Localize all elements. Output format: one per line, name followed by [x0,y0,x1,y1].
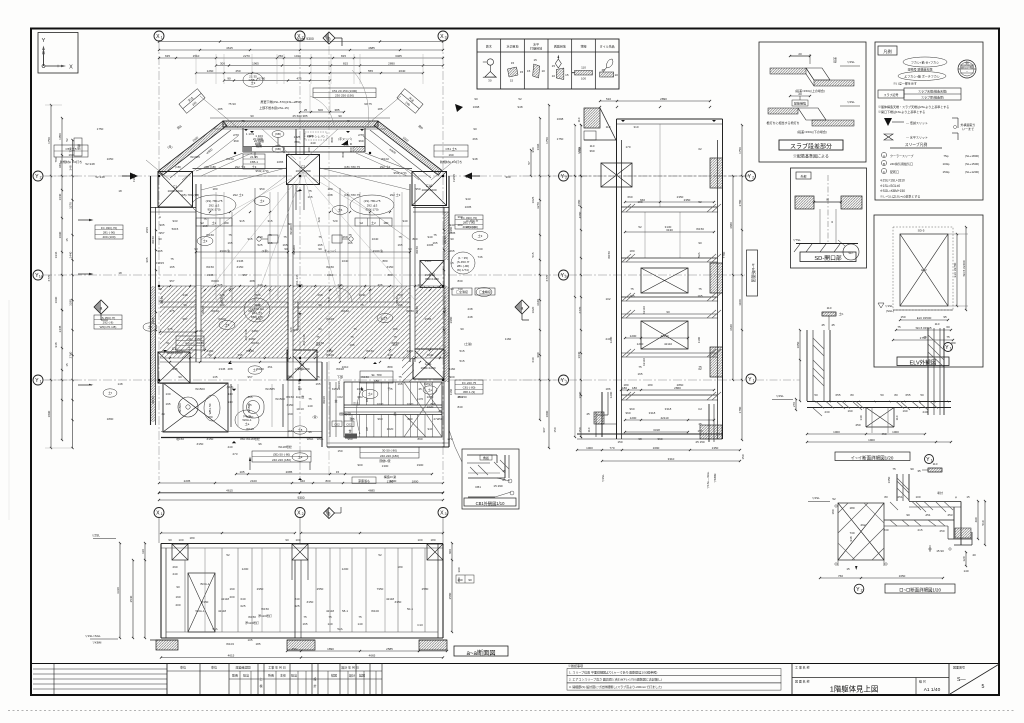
left arrow 1 [78,219,94,221]
plan tick cluster 1 [209,211,391,213]
C2 fan leaders [201,172,415,302]
i-i leader from Y1 [756,379,800,381]
svg-text:889: 889 [387,365,392,369]
i-i Y1 bubble right [925,455,934,464]
svg-text:4615: 4615 [226,489,233,493]
svg-text:C51 土5: C51 土5 [445,146,456,151]
svg-text:W0(170·1/8): W0(170·1/8) [100,325,117,329]
plan tick cluster 2 [169,361,421,363]
svg-text:9300: 9300 [297,38,305,42]
svg-text:948: 948 [472,157,477,161]
svg-text:1698: 1698 [557,117,564,121]
svg-text:W(·1/74): W(·1/74) [457,268,469,272]
svg-text:1160: 1160 [505,337,512,341]
svg-text:2550: 2550 [317,587,324,591]
svg-text:475: 475 [296,77,301,81]
svg-text:W918: W918 [322,396,326,404]
small squares hvac [257,235,353,243]
svg-text:310: 310 [633,125,638,129]
grid line Y1 [43,379,745,381]
aa bottom dims2 [160,654,444,659]
wall gap strips in band [197,286,415,358]
label box bottom-right [360,447,419,458]
svg-text:180: 180 [831,509,835,514]
grid bubble Y1 plan-right [559,375,569,385]
svg-text:269: 269 [342,235,347,239]
svg-text:1020: 1020 [531,306,535,313]
leader arrow bottom [249,457,310,471]
bb floor line 2 [621,258,718,262]
svg-text:W1900: W1900 [292,245,296,255]
svg-text:1000: 1000 [892,430,899,434]
aa extra texts [200,582,413,646]
svg-text:240·220·(180): 240·220·(180) [380,454,399,458]
svg-text:CB1外観図1/10: CB1外観図1/10 [476,500,506,507]
svg-text:140: 140 [357,622,362,626]
svg-text:1000×1000: 1000×1000 [421,188,436,192]
bb strip left wall [617,119,622,439]
svg-text:940: 940 [427,235,432,239]
svg-text:890: 890 [407,417,412,421]
leader diag left room [201,168,286,240]
svg-text:下部: 下部 [337,374,343,379]
svg-text:d5: d5 [502,478,506,482]
svg-text:W100: W100 [246,427,254,431]
svg-text:ELV #2780: ELV #2780 [953,262,957,277]
svg-text:75: 75 [398,235,402,239]
svg-text:42110: 42110 [642,306,646,314]
svg-text:金: 金 [334,398,337,403]
svg-text:615: 615 [443,307,447,312]
svg-text:1965: 1965 [252,62,259,66]
svg-text:96: 96 [308,430,312,434]
svg-text:1160: 1160 [449,367,456,371]
svg-text:鉄木: 鉄木 [486,44,492,49]
svg-text:02: 02 [698,147,702,151]
svg-text:90: 90 [474,97,478,101]
svg-text:180: 180 [623,383,628,387]
left outer wall [151,176,156,425]
svg-text:2890: 2890 [660,97,667,101]
svg-text:誘発目地: 誘発目地 [554,44,566,49]
svg-text:W150: W150 [251,341,259,345]
svg-text:230·250·(190): 230·250·(190) [335,94,354,98]
svg-text:チャンバ: チャンバ [324,248,336,253]
svg-text:90: 90 [158,287,162,291]
svg-text:52: 52 [518,97,522,101]
corridor D arrow [341,140,353,146]
svg-text:1: 1 [950,347,952,351]
svg-text:10: 10 [614,73,618,77]
left dims extra ticks [45,105,78,448]
svg-text:80: 80 [884,495,888,499]
svg-text:X: X [440,510,444,516]
svg-text:90: 90 [176,585,180,589]
svg-text:W100: W100 [326,353,334,357]
svg-text:1: 1 [565,380,567,384]
plan marker triangles [163,131,377,364]
svg-text:15: 15 [511,61,515,65]
svg-text:75: 75 [360,303,364,307]
svg-text:2: 2 [752,176,754,180]
svg-text:75: 75 [698,365,702,369]
svg-text:3440: 3440 [69,251,73,258]
svg-text:土a: 土a [188,345,193,350]
svg-text:匚全溶接: 匚全溶接 [479,289,491,294]
svg-text:(3E)·50·(·80): (3E)·50·(·80) [273,453,290,457]
label boxes S2 [196,218,392,226]
svg-text:土e: 土e [428,387,433,392]
label box WDA-1 [176,336,204,350]
bb hatched col 3 [710,347,723,377]
svg-text:390: 390 [457,215,462,219]
svg-text:土2: 土2 [260,198,265,203]
svg-text:ELV: ELV [921,268,926,272]
svg-text:905: 905 [151,317,155,322]
svg-text:957: 957 [182,317,187,321]
svg-text:292 土3: 292 土3 [235,164,246,169]
svg-text:45·150: 45·150 [457,395,467,399]
svg-text:▽2SL: ▽2SL [847,60,855,64]
svg-text:900: 900 [357,463,362,467]
svg-text:X: X [156,510,160,516]
svg-text:2780: 2780 [738,199,742,206]
svg-text:1. スリーブ位置 平面詳細図より1ヶ一であり(開削図は1: 1. スリーブ位置 平面詳細図より1ヶ一であり(開削図は1/50図参照) [569,670,657,675]
svg-text:9k ·780: 9k ·780 [371,373,381,377]
svg-text:(SL+1500): (SL+1500) [965,162,979,166]
svg-text:C02: C02 [334,423,340,427]
pit box 1 [163,383,228,432]
arrow top right small [455,104,463,112]
svg-text:555: 555 [368,69,373,73]
bb left dim texts [578,146,582,432]
svg-text:10 10: 10 10 [296,407,304,411]
svg-text:1020: 1020 [407,402,414,406]
svg-text:(9B): (9B) [275,132,281,136]
svg-text:5015: 5015 [172,227,179,231]
svg-text:W150: W150 [201,306,205,314]
svg-text:10: 10 [552,74,556,78]
svg-text:98: 98 [638,437,642,441]
svg-text:主任: 主任 [280,673,286,678]
grid bubble Y1a left [33,270,43,280]
svg-text:948: 948 [54,342,58,347]
svg-text:1a: 1a [564,275,568,279]
svg-text:スラブ天端(構造天端): スラブ天端(構造天端) [918,89,947,94]
partition centre v3 [231,212,233,302]
svg-text:880: 880 [397,293,402,297]
aa footing X3 [419,640,447,650]
svg-text:クーラースリーブ: クーラースリーブ [890,153,914,158]
dim chain 9300 top [158,37,444,42]
svg-text:75: 75 [308,397,312,401]
svg-text:9300: 9300 [306,37,314,41]
aa right sub box [456,575,474,583]
svg-text:1005: 1005 [465,205,472,209]
svg-text:451: 451 [267,365,272,369]
corridor leader arcs [310,70,369,128]
svg-text:設: 設 [313,676,316,681]
svg-text:1946: 1946 [54,251,58,258]
hanrei legend box [875,42,983,200]
svg-text:Y: Y [561,378,565,384]
svg-text:W150: W150 [151,236,155,244]
svg-text:担当: 担当 [243,673,249,678]
grid line X3 [442,41,444,480]
svg-text:90: 90 [318,303,322,307]
svg-text:18: 18 [118,271,122,275]
svg-text:FC·030(·70): FC·030(·70) [101,226,117,230]
svg-text:150φ: 150φ [943,170,950,174]
svg-text:1025: 1025 [294,135,301,139]
svg-text:720: 720 [332,219,337,223]
bb strip right wall [718,119,723,439]
wall hatch left lower [151,358,156,422]
svg-text:75: 75 [358,615,362,619]
bb floor line 1 [621,207,718,212]
svg-text:90: 90 [408,247,412,251]
svg-text:1640: 1640 [58,193,62,200]
svg-text:1900: 1900 [417,463,424,467]
svg-text:2580: 2580 [422,587,429,591]
svg-text:1750: 1750 [97,127,104,131]
svg-text:高窓: 高窓 [353,401,359,406]
svg-text:構造0=楽: 構造0=楽 [384,474,396,479]
svg-text:#150: #150 [387,265,394,269]
left diagonal wing beam [159,121,238,180]
svg-text:933: 933 [172,219,177,223]
plan texts vertical pass3 [151,152,447,404]
svg-text:SD-5 #2400: SD-5 #2400 [962,260,966,276]
svg-text:SD-5: SD-5 [918,229,925,233]
ellipse callout right band [451,252,475,274]
svg-text:※確認事項: ※確認事項 [568,663,583,668]
svg-text:W103: W103 [226,642,234,646]
svg-text:660: 660 [627,195,632,199]
svg-text:45: 45 [831,323,835,327]
svg-text:1階躯体見上図: 1階躯体見上図 [830,684,878,693]
plan-right label box 2 [455,380,483,394]
partition left room [160,302,288,307]
svg-text:土3: 土3 [251,80,256,85]
svg-text:90: 90 [318,327,322,331]
svg-text:75: 75 [630,287,634,291]
svg-text:235: 235 [172,367,177,371]
svg-text:W150: W150 [316,341,324,345]
svg-text:272: 272 [433,417,438,421]
svg-text:打継目地: 打継目地 [530,46,542,51]
column C1A top-right [412,172,447,206]
svg-text:3310: 3310 [668,457,675,461]
oval tags plan [103,197,492,462]
svg-text:100: 100 [295,538,300,542]
svg-text:830: 830 [477,247,482,251]
svg-text:52: 52 [226,553,230,557]
plan-right extra ticks [520,176,556,380]
svg-text:75: 75 [946,335,950,339]
svg-text:165: 165 [287,429,292,433]
svg-text:190: 190 [448,153,453,157]
svg-text:W150: W150 [248,615,256,619]
svg-text:480: 480 [457,223,462,227]
svg-text:FW15: FW15 [452,174,456,182]
svg-text:瑞B: 瑞B [287,374,292,379]
svg-text:45 150: 45 150 [695,440,705,444]
svg-text:165: 165 [697,294,702,298]
grid line Y2 [43,175,745,177]
svg-text:448: 448 [467,315,472,319]
svg-text:1350: 1350 [712,446,719,450]
svg-text:268: 268 [317,293,322,297]
svg-text:90: 90 [338,114,342,118]
svg-text:45: 45 [698,422,702,426]
plan tick cluster 4 [169,285,441,359]
svg-text:90: 90 [698,241,702,245]
svg-text:960: 960 [657,437,662,441]
svg-text:9300: 9300 [297,496,304,500]
grid bubble Y1 strip-right [746,374,756,384]
svg-text:190: 190 [287,412,292,416]
svg-text:165: 165 [392,327,397,331]
aa caption [454,646,508,657]
grid marker b top [323,32,342,46]
svg-text:15: 15 [966,495,970,499]
svg-text:フカシ+筋 セ+フカシ: フカシ+筋 セ+フカシ [911,60,939,65]
column C1A bottom-right [413,349,444,379]
svg-text:工事 年 月 日: 工事 年 月 日 [268,665,286,670]
svg-text:957: 957 [159,231,164,235]
svg-text:土d: 土d [368,391,373,396]
bb level 2SL [601,474,605,482]
svg-text:540: 540 [227,400,232,404]
svg-text:190: 190 [68,153,73,157]
svg-text:200: 200 [229,595,234,599]
svg-text:75: 75 [316,335,320,339]
svg-text:スラブ段差部分: スラブ段差部分 [790,143,832,151]
dim chain plan bottom 2 [158,489,444,494]
grid bubble X2 top [295,31,305,41]
svg-text:30: 30 [488,79,492,83]
svg-text:15: 15 [336,470,340,474]
svg-text:15: 15 [510,79,514,83]
svg-text:3270: 3270 [536,202,540,209]
svg-text:889: 889 [387,273,392,277]
svg-text:(1S)·780+75: (1S)·780+75 [364,199,381,203]
plan texts pass3 [159,97,522,441]
tiny vertical texts [132,146,726,398]
dim chain top sub4 [223,77,331,82]
svg-text:C51 土5: C51 土5 [65,146,76,151]
svg-text:※配筋基準図による: ※配筋基準図による [793,152,829,158]
svg-text:20: 20 [798,52,802,56]
svg-text:600: 600 [307,147,311,152]
svg-text:b~b断面図: b~b断面図 [751,264,757,283]
svg-text:2040: 2040 [399,69,406,73]
svg-text:915: 915 [247,237,252,241]
svg-text:建物号 鉄構造天端: 建物号 鉄構造天端 [908,67,933,72]
aa level 2SL [92,534,116,539]
svg-text:281·(-90): 281·(-90) [466,225,478,229]
dim chain plan-right outer [545,104,550,449]
svg-text:96: 96 [258,442,262,446]
svg-text:180: 180 [647,383,652,387]
svg-text:角処: 角処 [483,455,489,460]
svg-text:W150: W150 [151,396,155,404]
svg-text:488: 488 [249,279,254,283]
svg-text:420: 420 [317,217,321,222]
partition centre v2 [339,188,341,302]
svg-text:15: 15 [158,299,162,303]
inner dim row 1 [195,251,411,253]
tiny horizontal texts [95,132,511,468]
svg-text:251: 251 [897,495,902,499]
svg-text:外部: 外部 [800,173,806,178]
svg-text:180: 180 [950,341,955,345]
svg-text:(9B): (9B) [275,147,281,151]
scan artifact bottom dotted line [8,710,1016,712]
svg-text:#150: #150 [395,600,402,604]
svg-text:105: 105 [247,638,252,642]
svg-text:d51: d51 [925,513,930,517]
left room wall [196,184,201,362]
svg-text:292 土3: 292 土3 [380,164,391,169]
svg-text:261·148: 261·148 [295,274,299,285]
svg-text:400·(100): 400·(100) [102,235,115,239]
svg-text:3640: 3640 [578,391,582,398]
svg-text:510: 510 [981,520,985,525]
svg-text:180: 180 [223,221,228,225]
bb inner verticals [645,124,680,258]
bottom centre wall [322,362,327,447]
svg-text:940: 940 [427,427,432,431]
svg-text:#150: #150 [207,437,214,441]
svg-text:250: 250 [855,423,860,427]
ELV elevation box [874,215,983,367]
svg-text:238: 238 [467,307,472,311]
svg-text:1780: 1780 [738,406,742,413]
svg-text:ロ~ロ断面詳細図1/20: ロ~ロ断面詳細図1/20 [899,587,941,594]
svg-text:設計: 設計 [349,673,355,678]
label box C51 left [54,145,88,164]
hatched slab band [160,286,446,358]
svg-text:52·948: 52·948 [95,175,105,179]
svg-text:スリーブ凡例: スリーブ凡例 [905,142,928,147]
svg-text:148: 148 [117,382,122,386]
dim chain top sub3 [195,69,424,74]
svg-text:800: 800 [349,147,353,152]
svg-text:90: 90 [318,247,322,251]
svg-text:2985: 2985 [425,259,432,263]
svg-text:15: 15 [552,64,556,68]
svg-text:1070: 1070 [427,395,434,399]
svg-text:180: 180 [629,249,634,253]
top small text 2 [259,105,289,110]
svg-text:(1B)·780·(1B): (1B)·780·(1B) [181,193,199,197]
svg-text:180: 180 [849,506,854,510]
svg-text:W900: W900 [256,367,264,371]
svg-text:190: 190 [902,409,907,413]
svg-text:下部: 下部 [297,366,303,371]
svg-text:430: 430 [219,303,224,307]
svg-text:90: 90 [298,387,302,391]
svg-text:165: 165 [169,265,174,269]
svg-text:1060: 1060 [357,387,364,391]
svg-text:025: 025 [240,604,245,608]
svg-text:180: 180 [637,200,642,204]
svg-text:50-1: 50-1 [407,607,413,611]
svg-text:1800: 1800 [412,480,419,484]
svg-text:110: 110 [827,306,832,310]
